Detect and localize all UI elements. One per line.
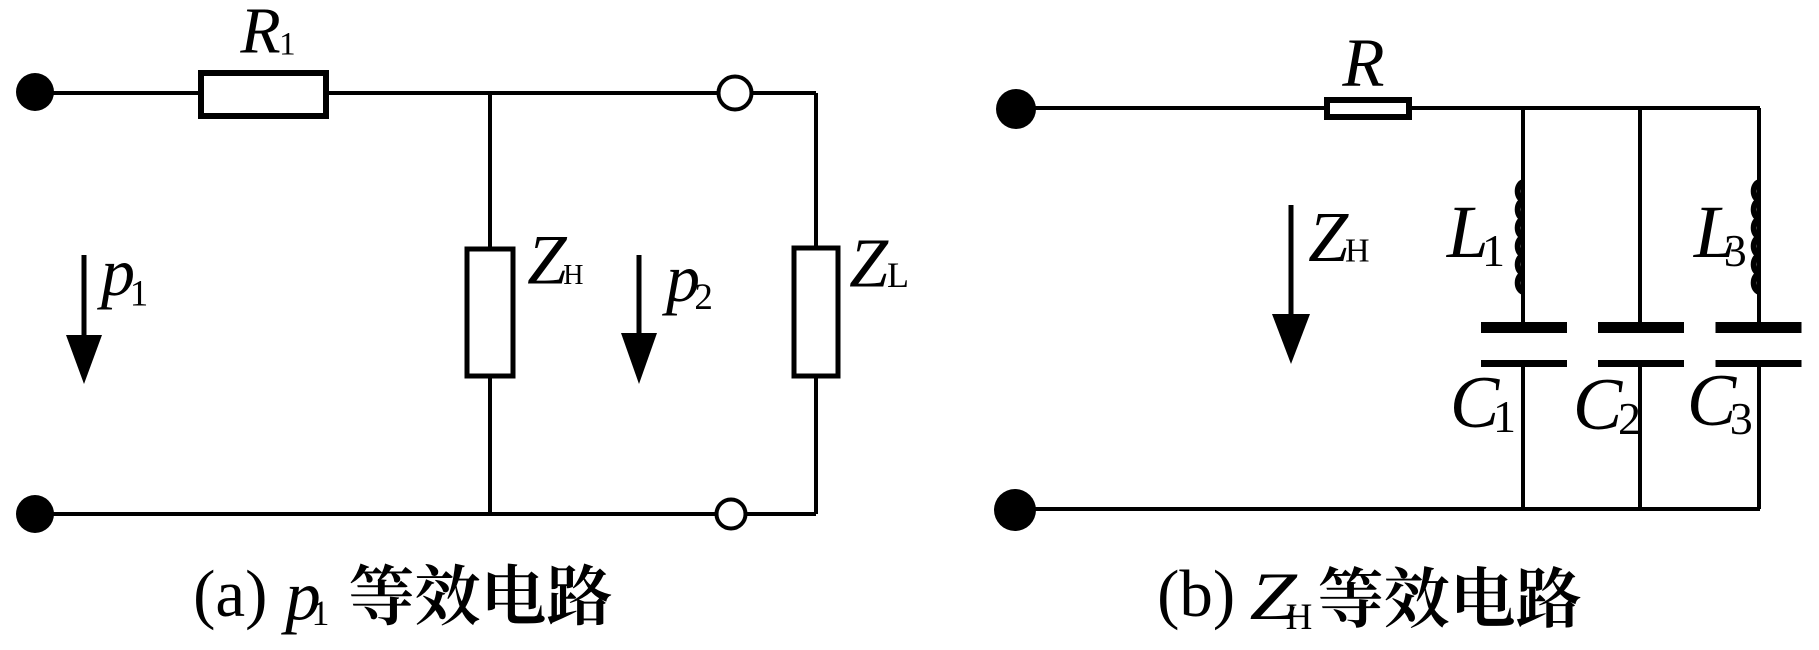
svg-text:2: 2 <box>1618 393 1641 444</box>
svg-text:1: 1 <box>1482 225 1505 276</box>
svg-text:Z: Z <box>849 226 889 303</box>
svg-text:(b): (b) <box>1157 557 1235 631</box>
svg-text:Z: Z <box>527 222 568 300</box>
svg-text:1: 1 <box>130 273 149 314</box>
svg-text:H: H <box>563 260 583 291</box>
svg-text:3: 3 <box>1730 393 1753 444</box>
svg-text:C: C <box>1573 364 1624 446</box>
svg-text:R: R <box>239 0 280 68</box>
svg-text:H: H <box>1345 233 1370 270</box>
svg-text:1: 1 <box>1493 391 1516 442</box>
svg-text:2: 2 <box>694 277 713 318</box>
svg-text:Z: Z <box>1308 197 1349 277</box>
svg-text:(a): (a) <box>193 557 267 631</box>
svg-text:L: L <box>887 255 909 295</box>
svg-text:1: 1 <box>279 26 296 62</box>
svg-text:H: H <box>1286 597 1313 638</box>
svg-text:3: 3 <box>1724 225 1747 276</box>
svg-text:R: R <box>1341 25 1384 101</box>
svg-text:1: 1 <box>312 593 330 633</box>
